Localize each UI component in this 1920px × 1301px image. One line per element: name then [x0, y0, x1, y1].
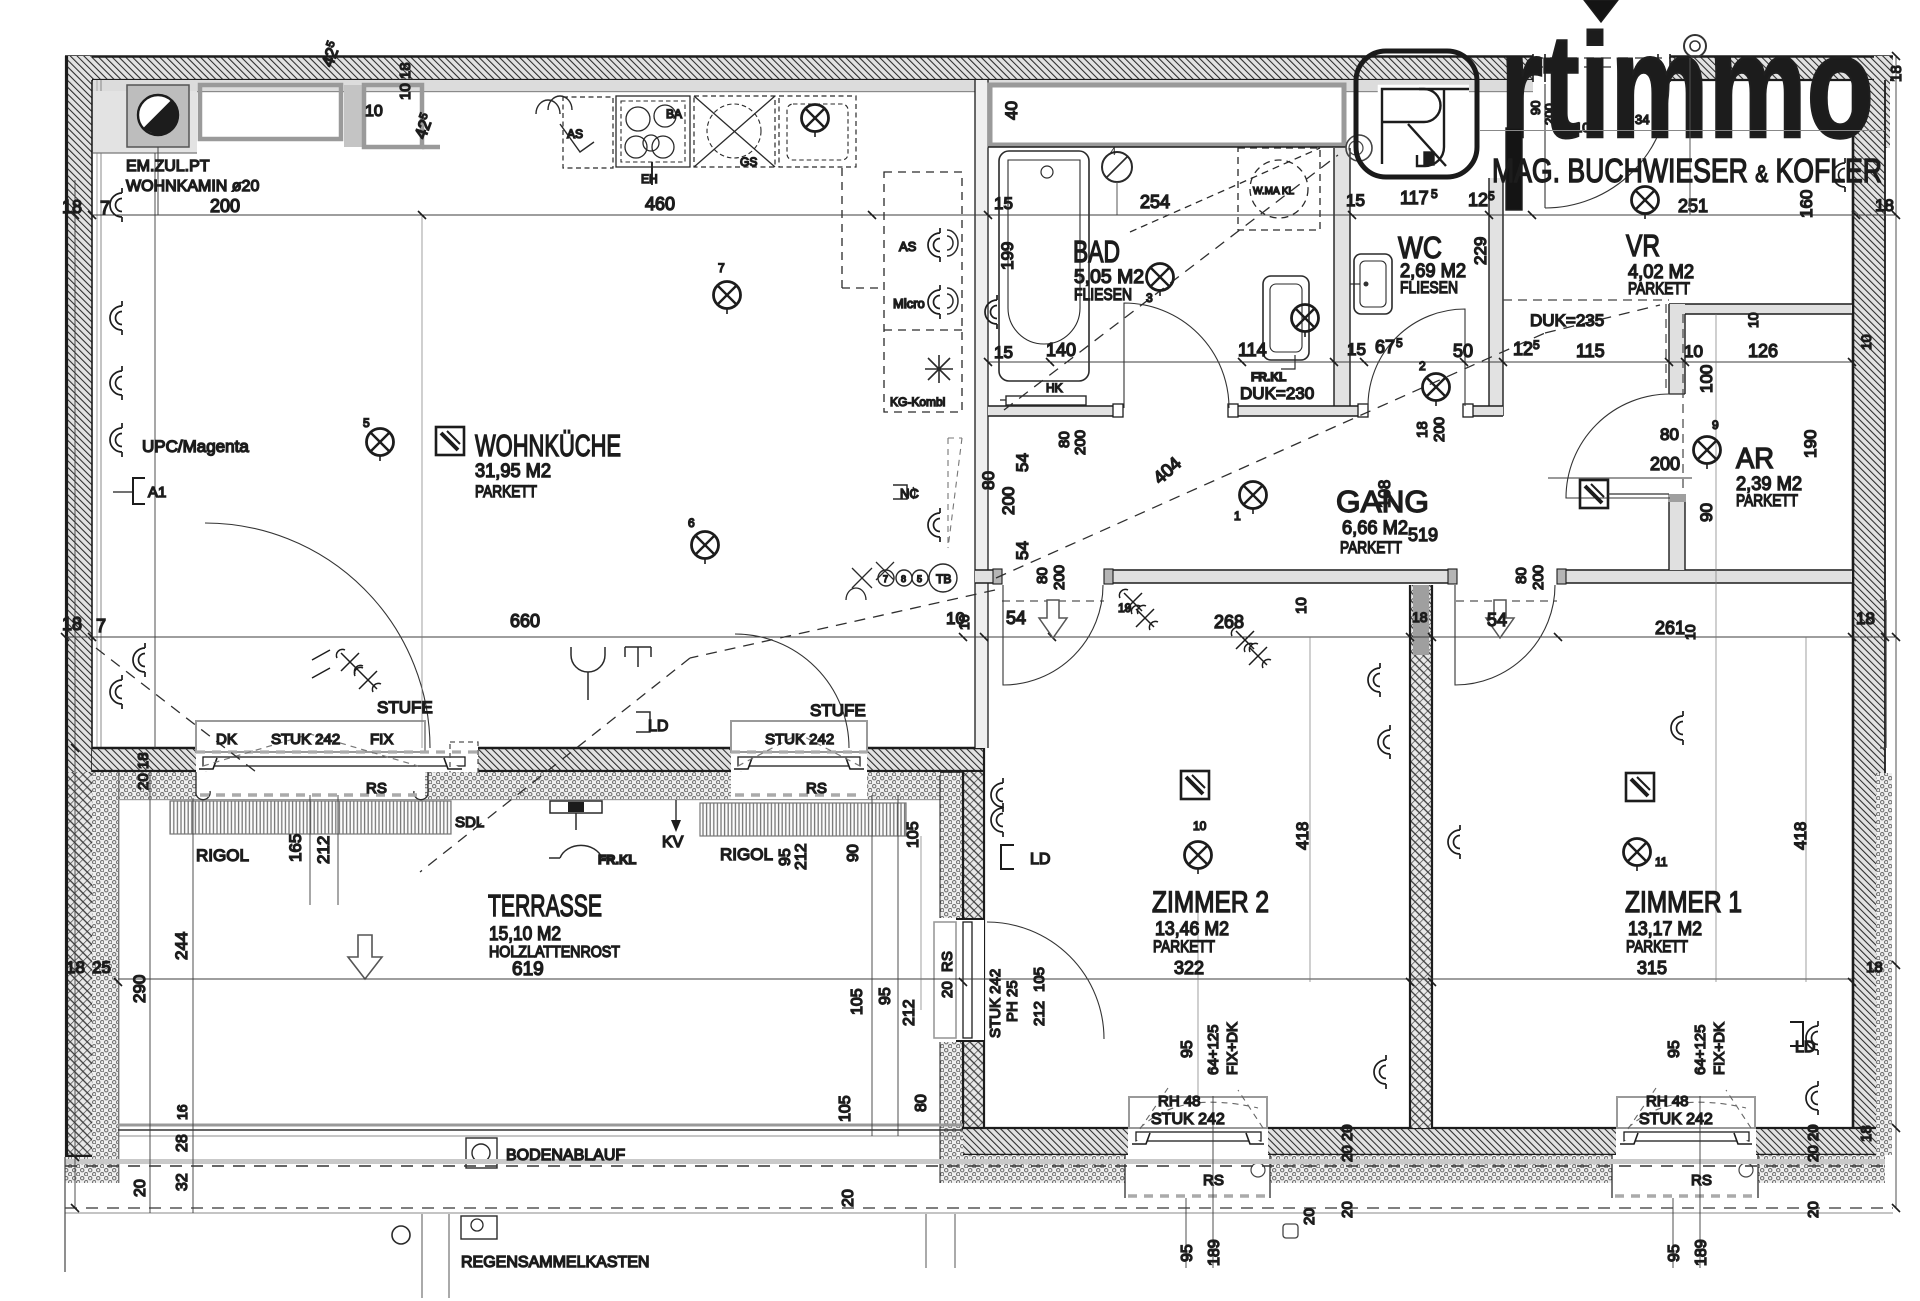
BAD top shelf: [988, 83, 1346, 147]
right exterior wall: [1853, 56, 1890, 1152]
kitchen counter left: [200, 85, 422, 147]
svg-text:RIGOL: RIGOL: [196, 846, 249, 865]
svg-text:WC: WC: [1398, 230, 1442, 265]
svg-text:140: 140: [1046, 340, 1076, 360]
NC symbol: [893, 485, 915, 499]
BAD door arc: [1124, 303, 1229, 408]
svg-text:50: 50: [1453, 341, 1473, 361]
svg-text:10: 10: [1682, 624, 1698, 640]
svg-text:DK: DK: [216, 731, 237, 748]
svg-text:5: 5: [1431, 187, 1438, 201]
bodenablauf symbol: [466, 1138, 497, 1168]
svg-text:PARKETT: PARKETT: [1626, 937, 1688, 956]
svg-text:20: 20: [1805, 1201, 1822, 1218]
svg-text:EH: EH: [641, 172, 658, 186]
AS cable symbol: [536, 96, 594, 152]
svg-text:HK: HK: [1046, 381, 1063, 395]
svg-text:RS: RS: [1203, 1172, 1224, 1189]
svg-text:32: 32: [174, 1173, 191, 1191]
svg-text:18: 18: [1866, 959, 1883, 976]
svg-text:15: 15: [1347, 340, 1366, 359]
svg-text:28: 28: [174, 1134, 191, 1152]
svg-text:7: 7: [718, 261, 725, 275]
svg-text:54: 54: [1006, 608, 1026, 628]
entrance gap in top wall: [1533, 54, 1670, 82]
svg-text:FIX: FIX: [370, 731, 393, 748]
svg-text:418: 418: [1293, 822, 1312, 850]
svg-text:A1: A1: [148, 484, 166, 501]
svg-text:229: 229: [1471, 237, 1490, 265]
svg-text:FR.KL: FR.KL: [598, 852, 636, 867]
svg-text:95: 95: [777, 848, 794, 866]
svg-text:117: 117: [1400, 188, 1429, 208]
svg-text:212: 212: [1031, 1001, 1048, 1026]
svg-text:PARKETT: PARKETT: [1153, 937, 1215, 956]
terrace furniture: table + chairs top: [571, 647, 651, 700]
svg-text:5: 5: [1533, 338, 1540, 352]
svg-text:RS: RS: [1691, 1172, 1712, 1189]
svg-text:80: 80: [1660, 425, 1679, 444]
svg-text:165: 165: [286, 834, 305, 862]
svg-text:8: 8: [901, 574, 906, 584]
svg-text:660: 660: [510, 611, 540, 631]
svg-text:STUK 242: STUK 242: [765, 731, 834, 748]
regensammelkasten symbols: [392, 1214, 955, 1298]
svg-text:5: 5: [363, 416, 370, 430]
svg-text:20: 20: [1339, 1201, 1356, 1218]
svg-text:18: 18: [62, 197, 82, 217]
LOGO: [1346, 0, 1885, 215]
svg-text:LD: LD: [648, 718, 668, 735]
black bar under rt: [1506, 128, 1522, 210]
svg-text:261: 261: [1655, 618, 1685, 638]
svg-text:189: 189: [1206, 1239, 1223, 1266]
svg-text:PARKETT: PARKETT: [1736, 491, 1798, 510]
svg-text:7: 7: [883, 574, 888, 584]
svg-text:126: 126: [1748, 341, 1778, 361]
svg-text:54: 54: [1487, 610, 1507, 630]
A1 bracket: [133, 478, 145, 504]
svg-text:FIX+DK: FIX+DK: [1224, 1022, 1241, 1075]
svg-text:6: 6: [688, 516, 695, 530]
TB cluster: [846, 562, 957, 600]
svg-text:FR.KL: FR.KL: [1251, 370, 1286, 384]
svg-text:1: 1: [1234, 509, 1241, 523]
svg-text:244: 244: [172, 932, 191, 960]
terrace big arrow: [348, 935, 382, 979]
top wall inner lining (kitchen): [93, 80, 1533, 92]
svg-text:6,66 M2: 6,66 M2: [1342, 518, 1408, 539]
AR door arc: [1566, 394, 1670, 498]
svg-text:90: 90: [845, 844, 862, 862]
svg-text:20: 20: [840, 1189, 857, 1207]
svg-text:TB: TB: [936, 572, 951, 586]
svg-text:rtimmo: rtimmo: [1500, 4, 1874, 169]
svg-text:BA: BA: [666, 107, 682, 121]
GANG bottom wall: [975, 568, 1852, 585]
svg-text:95: 95: [1666, 1040, 1683, 1058]
svg-text:31,95 M2: 31,95 M2: [475, 461, 551, 482]
dashed sill lines under openings: [200, 793, 863, 796]
svg-text:315: 315: [1637, 958, 1667, 978]
HK radiator: [1006, 396, 1086, 405]
Z1 bottom window: [1616, 1096, 1756, 1155]
chimney corner lining: [93, 91, 197, 153]
svg-text:RS: RS: [939, 951, 956, 972]
svg-text:67: 67: [1375, 337, 1395, 357]
svg-text:STUFE: STUFE: [810, 701, 866, 720]
svg-text:15,10 M2: 15,10 M2: [489, 924, 561, 945]
svg-text:200: 200: [210, 196, 240, 216]
svg-text:200: 200: [1072, 430, 1089, 455]
GS dishwasher: [694, 96, 775, 167]
svg-text:10: 10: [956, 614, 972, 630]
svg-text:16: 16: [174, 1104, 190, 1120]
svg-text:18: 18: [1858, 1125, 1875, 1142]
svg-text:200: 200: [999, 487, 1018, 515]
svg-text:TERRASSE: TERRASSE: [488, 888, 602, 923]
svg-text:20: 20: [939, 981, 956, 998]
svg-text:105: 105: [837, 1095, 854, 1122]
svg-text:20 18: 20 18: [135, 752, 152, 790]
svg-text:251: 251: [1678, 196, 1708, 216]
svg-text:4: 4: [1110, 146, 1116, 158]
svg-text:EM.ZUL.PT: EM.ZUL.PT: [126, 158, 210, 175]
dimension numbers: [62, 103, 1894, 1128]
svg-text:7: 7: [100, 198, 110, 218]
svg-text:519: 519: [1408, 525, 1438, 545]
svg-text:290: 290: [130, 975, 149, 1003]
svg-text:200: 200: [1431, 417, 1448, 442]
svg-text:18: 18: [66, 958, 85, 977]
svg-text:HOLZLATTENROST: HOLZLATTENROST: [489, 944, 620, 961]
svg-text:12: 12: [1513, 339, 1533, 359]
svg-text:RH 48: RH 48: [1158, 1093, 1201, 1110]
svg-text:20: 20: [132, 1179, 149, 1197]
svg-text:ZIMMER 1: ZIMMER 1: [1625, 886, 1742, 919]
svg-text:199: 199: [998, 242, 1017, 270]
room labels: [475, 228, 1802, 980]
svg-text:Micro: Micro: [893, 296, 925, 311]
VR dashed duct lines: [1503, 300, 1683, 494]
svg-text:PARKETT: PARKETT: [1628, 279, 1690, 298]
svg-text:105: 105: [905, 821, 922, 848]
svg-text:STUK 242: STUK 242: [1151, 1111, 1225, 1128]
svg-text:254: 254: [1140, 192, 1170, 212]
svg-text:95: 95: [1179, 1040, 1196, 1058]
svg-text:LD: LD: [1030, 851, 1050, 868]
svg-text:114: 114: [1238, 340, 1267, 360]
svg-text:GS: GS: [740, 155, 757, 169]
svg-text:212: 212: [793, 843, 810, 870]
svg-text:160: 160: [1797, 190, 1816, 218]
svg-text:18: 18: [1888, 65, 1905, 82]
WC washbasin: [1350, 254, 1392, 314]
WC right wall: [1489, 178, 1503, 416]
entrance area small numbers (partially hidden by logo): [1528, 101, 1649, 135]
left exterior wall: [67, 56, 102, 1157]
BAD bottom wall: [988, 404, 1503, 418]
svg-text:200: 200: [1530, 565, 1547, 590]
svg-text:200: 200: [1051, 565, 1068, 590]
main horizontal dimension chains: [92, 214, 1896, 216]
terrace bottom lines: [118, 1125, 963, 1136]
svg-text:10: 10: [1745, 312, 1761, 328]
Z2 door arc: [1003, 585, 1103, 685]
svg-text:AS: AS: [567, 127, 583, 141]
svg-text:PARKETT: PARKETT: [1340, 538, 1402, 557]
svg-text:WOHNKAMIN ø20: WOHNKAMIN ø20: [126, 178, 259, 195]
svg-text:322: 322: [1174, 958, 1204, 978]
artimmo rounded square: [1346, 51, 1477, 177]
svg-text:10 18: 10 18: [397, 62, 414, 100]
living room right partition: [975, 80, 988, 748]
svg-text:95: 95: [1666, 1244, 1683, 1262]
RIGOL grates: [170, 772, 906, 836]
svg-text:STUK 242: STUK 242: [1639, 1111, 1713, 1128]
socket marks Z1 top: [1833, 158, 1845, 192]
svg-text:105: 105: [1031, 967, 1048, 992]
svg-text:11: 11: [1655, 855, 1668, 869]
svg-text:64+125: 64+125: [1205, 1025, 1222, 1075]
svg-text:10: 10: [1293, 597, 1310, 614]
svg-text:200: 200: [1650, 454, 1680, 474]
vertical dimension chains: [74, 180, 76, 1208]
svg-text:190: 190: [1801, 430, 1820, 458]
svg-text:9: 9: [1712, 418, 1719, 432]
registered mark: [1689, 58, 1691, 215]
sockets rooms: [991, 778, 1003, 812]
svg-text:STUFE: STUFE: [377, 698, 433, 717]
Z1/Z2 divider wall: [1410, 585, 1432, 1128]
washing machine dashed: [1130, 148, 1320, 232]
svg-text:AS: AS: [899, 239, 917, 254]
bathtub: [999, 151, 1089, 381]
svg-text:54: 54: [1013, 541, 1032, 560]
svg-text:18: 18: [62, 614, 82, 634]
subtitle: [1480, 130, 1885, 132]
bottom exterior wall under Z2/Z1: [963, 1128, 1885, 1155]
right appliance column: [842, 168, 962, 412]
svg-text:3: 3: [1146, 291, 1153, 305]
door step arrows: [1039, 600, 1067, 638]
svg-text:RS: RS: [806, 780, 827, 797]
svg-text:KV: KV: [662, 834, 684, 851]
svg-text:MAG. BUCHWIESER & KOFLER: MAG. BUCHWIESER & KOFLER: [1492, 152, 1882, 189]
svg-text:18: 18: [1875, 196, 1894, 215]
svg-text:RS: RS: [366, 780, 387, 797]
parapet line right: [1880, 600, 1886, 748]
svg-text:DUK=235: DUK=235: [1530, 311, 1604, 330]
svg-text:10: 10: [1193, 819, 1207, 833]
svg-text:BAD: BAD: [1073, 234, 1120, 269]
svg-text:FIX+DK: FIX+DK: [1711, 1022, 1728, 1075]
AR walls: [1668, 304, 1852, 570]
black triangle top: [1584, 0, 1618, 22]
svg-text:80: 80: [1034, 567, 1051, 584]
svg-text:RIGOL: RIGOL: [720, 845, 773, 864]
svg-text:DUK=230: DUK=230: [1240, 384, 1314, 403]
svg-text:212: 212: [314, 836, 333, 864]
svg-text:115: 115: [1576, 341, 1605, 361]
svg-text:AR: AR: [1736, 443, 1774, 475]
svg-text:5: 5: [917, 574, 922, 584]
svg-text:40: 40: [1002, 101, 1021, 120]
svg-text:15: 15: [994, 194, 1013, 213]
svg-text:VR: VR: [1626, 228, 1660, 263]
svg-text:15: 15: [994, 343, 1013, 362]
fans near terrace door: [336, 649, 363, 674]
Z2 left window opening: [930, 918, 1104, 1042]
svg-text:80: 80: [1056, 431, 1073, 448]
svg-text:WOHNKÜCHE: WOHNKÜCHE: [475, 428, 621, 463]
door arcs to terrace: [205, 523, 849, 748]
svg-text:25: 25: [92, 958, 111, 977]
appliance row dashed: AS: [563, 96, 856, 168]
svg-text:ZIMMER 2: ZIMMER 2: [1152, 886, 1269, 919]
Z2 bottom window: [1128, 1096, 1268, 1155]
svg-text:FLIESEN: FLIESEN: [1074, 285, 1132, 304]
fans near Z2 door: [1119, 589, 1146, 614]
svg-text:STUK 242: STUK 242: [271, 731, 340, 748]
bottom boundary lines: [65, 1157, 1893, 1272]
Z1 door arc: [1455, 585, 1555, 685]
LD bracket top: [636, 712, 650, 732]
svg-text:RH 48: RH 48: [1646, 1093, 1689, 1110]
svg-text:189: 189: [1693, 1239, 1710, 1266]
LD brackets: [1001, 845, 1014, 869]
svg-text:STUK 242: STUK 242: [987, 969, 1004, 1038]
svg-text:95: 95: [1179, 1244, 1196, 1262]
terrace insulation bands: [65, 772, 963, 1183]
living/terrace wall: [92, 748, 984, 772]
svg-text:SDL: SDL: [455, 814, 484, 831]
svg-text:FLIESEN: FLIESEN: [1400, 278, 1458, 297]
svg-text:212: 212: [901, 999, 918, 1026]
svg-text:PARKETT: PARKETT: [475, 482, 537, 501]
svg-text:64+125: 64+125: [1692, 1025, 1709, 1075]
terrace window opening (STUK 242): [731, 720, 867, 784]
svg-text:418: 418: [1791, 822, 1810, 850]
terrace right wall (Z2 left): [940, 748, 984, 1183]
SDL table: [549, 801, 613, 858]
svg-text:108: 108: [1375, 480, 1394, 508]
lamp numbers: [363, 261, 1719, 869]
bottom insulation band: [963, 773, 1892, 1183]
svg-text:REGENSAMMELKASTEN: REGENSAMMELKASTEN: [461, 1254, 649, 1271]
svg-text:LD: LD: [1795, 1039, 1815, 1056]
WC door arc: [1368, 309, 1465, 406]
fans near Z1 door: [1231, 627, 1258, 652]
svg-text:619: 619: [512, 959, 544, 980]
svg-text:7: 7: [96, 616, 106, 636]
duct dashes: [948, 438, 962, 548]
entrance door leaf + arc: [1545, 84, 1669, 208]
gang door dim pairs: [1034, 565, 1547, 590]
svg-text:90: 90: [1697, 503, 1716, 522]
KV arrow: [671, 800, 681, 832]
svg-text:19: 19: [1118, 601, 1132, 615]
svg-text:18: 18: [1412, 609, 1428, 625]
svg-text:80: 80: [1513, 567, 1530, 584]
svg-text:2: 2: [1419, 359, 1426, 373]
svg-text:268: 268: [1214, 612, 1244, 632]
svg-text:20: 20: [1301, 1208, 1318, 1225]
svg-text:15: 15: [1346, 191, 1365, 210]
svg-text:5: 5: [1396, 336, 1403, 350]
svg-text:18: 18: [1856, 609, 1875, 628]
diagonal dashed electric runs: [96, 155, 1660, 872]
svg-text:80: 80: [913, 1094, 930, 1112]
switches: [436, 427, 464, 455]
svg-text:100: 100: [1697, 365, 1716, 393]
sink: [787, 104, 848, 160]
svg-text:80: 80: [979, 471, 998, 490]
svg-text:95: 95: [877, 987, 894, 1005]
svg-text:20 20: 20 20: [1805, 1124, 1822, 1162]
svg-text:10: 10: [1684, 342, 1703, 361]
BAD/WC divider wall: [1334, 148, 1350, 406]
svg-text:UPC/Magenta: UPC/Magenta: [142, 437, 249, 456]
svg-text:5: 5: [1488, 189, 1495, 203]
svg-text:NC: NC: [900, 486, 919, 501]
BAD washbasin: [1263, 276, 1309, 369]
ceiling lamps: [714, 282, 741, 315]
svg-text:10: 10: [365, 103, 383, 120]
svg-text:KG-Kombi: KG-Kombi: [890, 395, 945, 409]
terrace door opening (DK STUK FIX): [196, 720, 478, 784]
svg-text:PH 25: PH 25: [1004, 980, 1021, 1022]
svg-text:20 20: 20 20: [1339, 1124, 1356, 1162]
svg-text:10: 10: [1858, 334, 1874, 350]
top exterior wall: [65, 56, 1893, 80]
svg-text:105: 105: [849, 988, 866, 1015]
window sill boxes (RS): [975, 80, 1852, 1238]
svg-text:12: 12: [1468, 190, 1488, 210]
stove EH: [616, 96, 690, 185]
svg-text:W.MA KL: W.MA KL: [1253, 186, 1295, 197]
svg-text:460: 460: [645, 194, 675, 214]
svg-text:18: 18: [1414, 421, 1431, 438]
chimney block WOHNKAMIN: [127, 85, 189, 215]
svg-text:BODENABLAUF: BODENABLAUF: [506, 1147, 625, 1164]
svg-text:54: 54: [1013, 453, 1032, 472]
sockets left wall: [110, 301, 122, 335]
